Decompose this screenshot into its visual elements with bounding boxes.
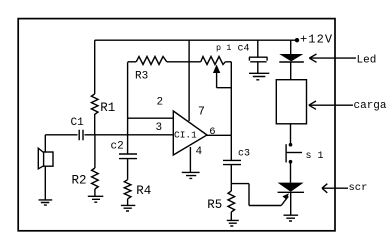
ground (R2): [88, 196, 104, 202]
speaker LS: [44, 152, 53, 166]
wire: pin2: [128, 117, 174, 119]
svg-text:7: 7: [198, 105, 205, 118]
resistor R3: [127, 62, 129, 118]
arrow scr: [322, 184, 348, 193]
wire: down to C2: [127, 118, 129, 154]
LED D1: [290, 40, 292, 54]
wire: C2 to R4: [127, 159, 129, 180]
SCR D2: [278, 183, 304, 192]
node: +12V dot: [295, 38, 299, 42]
wire: R5 to ground: [230, 212, 232, 220]
svg-text:R5: R5: [207, 198, 222, 212]
ground (speaker): [39, 200, 53, 205]
wire: C4 to ground: [257, 62, 259, 73]
wire: rail down to R1: [94, 40, 96, 94]
resistor R4: [124, 180, 131, 199]
svg-text:R2: R2: [72, 173, 87, 187]
wire: signal line C1/pin3: [45, 134, 173, 136]
svg-text:+12V: +12V: [300, 32, 333, 46]
SCR gate wire: [231, 184, 281, 206]
resistor R2: [94, 135, 96, 168]
svg-text:scr: scr: [349, 182, 368, 194]
P1 wiper arrow: [217, 73, 232, 88]
svg-text:6: 6: [209, 126, 215, 138]
wire: R1 to node A: [94, 114, 96, 135]
resistor R5: [230, 184, 232, 191]
svg-text:Led: Led: [357, 55, 377, 67]
capacitor C2: [119, 154, 137, 159]
potentiometer P1: [201, 57, 226, 65]
pin7 wire: [188, 40, 190, 121]
wire: speaker drop: [44, 135, 46, 152]
resistor R1: [91, 94, 98, 114]
switch s1: [290, 124, 292, 145]
border frame: [18, 19, 335, 231]
ground (R5): [227, 220, 239, 226]
svg-text:4: 4: [196, 146, 203, 158]
svg-text:c2: c2: [111, 140, 124, 152]
capacitor C1: [79, 130, 83, 141]
ground (R4): [121, 205, 135, 211]
pin4 wire to ground: [189, 147, 191, 172]
svg-text:3: 3: [156, 122, 163, 134]
svg-text:p 1: p 1: [216, 43, 231, 53]
svg-text:2: 2: [157, 97, 164, 109]
wire: R4 to ground: [127, 199, 129, 205]
load (carga) rectangle: [276, 80, 306, 124]
svg-text:R1: R1: [100, 101, 115, 115]
svg-text:carga: carga: [354, 100, 387, 112]
op-amp CI.1: [173, 111, 207, 155]
wire: speaker to ground: [44, 166, 46, 199]
capacitor C4: [257, 40, 259, 57]
wire: R2 to ground: [94, 189, 96, 196]
arrow Led: [309, 54, 356, 62]
svg-text:C1: C1: [71, 117, 85, 129]
wire: C3 to R5 junction: [230, 165, 232, 184]
ground (SCR): [284, 215, 299, 221]
svg-text:c4: c4: [238, 44, 250, 55]
ground (C4): [249, 73, 269, 80]
svg-text:CI.1: CI.1: [174, 130, 197, 141]
ground (op-amp): [182, 172, 200, 178]
wire: output pin6: [207, 134, 231, 136]
svg-text:R4: R4: [136, 184, 151, 198]
arrow carga: [309, 101, 353, 109]
svg-text:s 1: s 1: [306, 151, 324, 162]
svg-text:R3: R3: [135, 71, 148, 83]
svg-text:c3: c3: [238, 149, 250, 160]
capacitor C3: [230, 135, 232, 160]
wire: +12V top rail: [95, 39, 297, 41]
